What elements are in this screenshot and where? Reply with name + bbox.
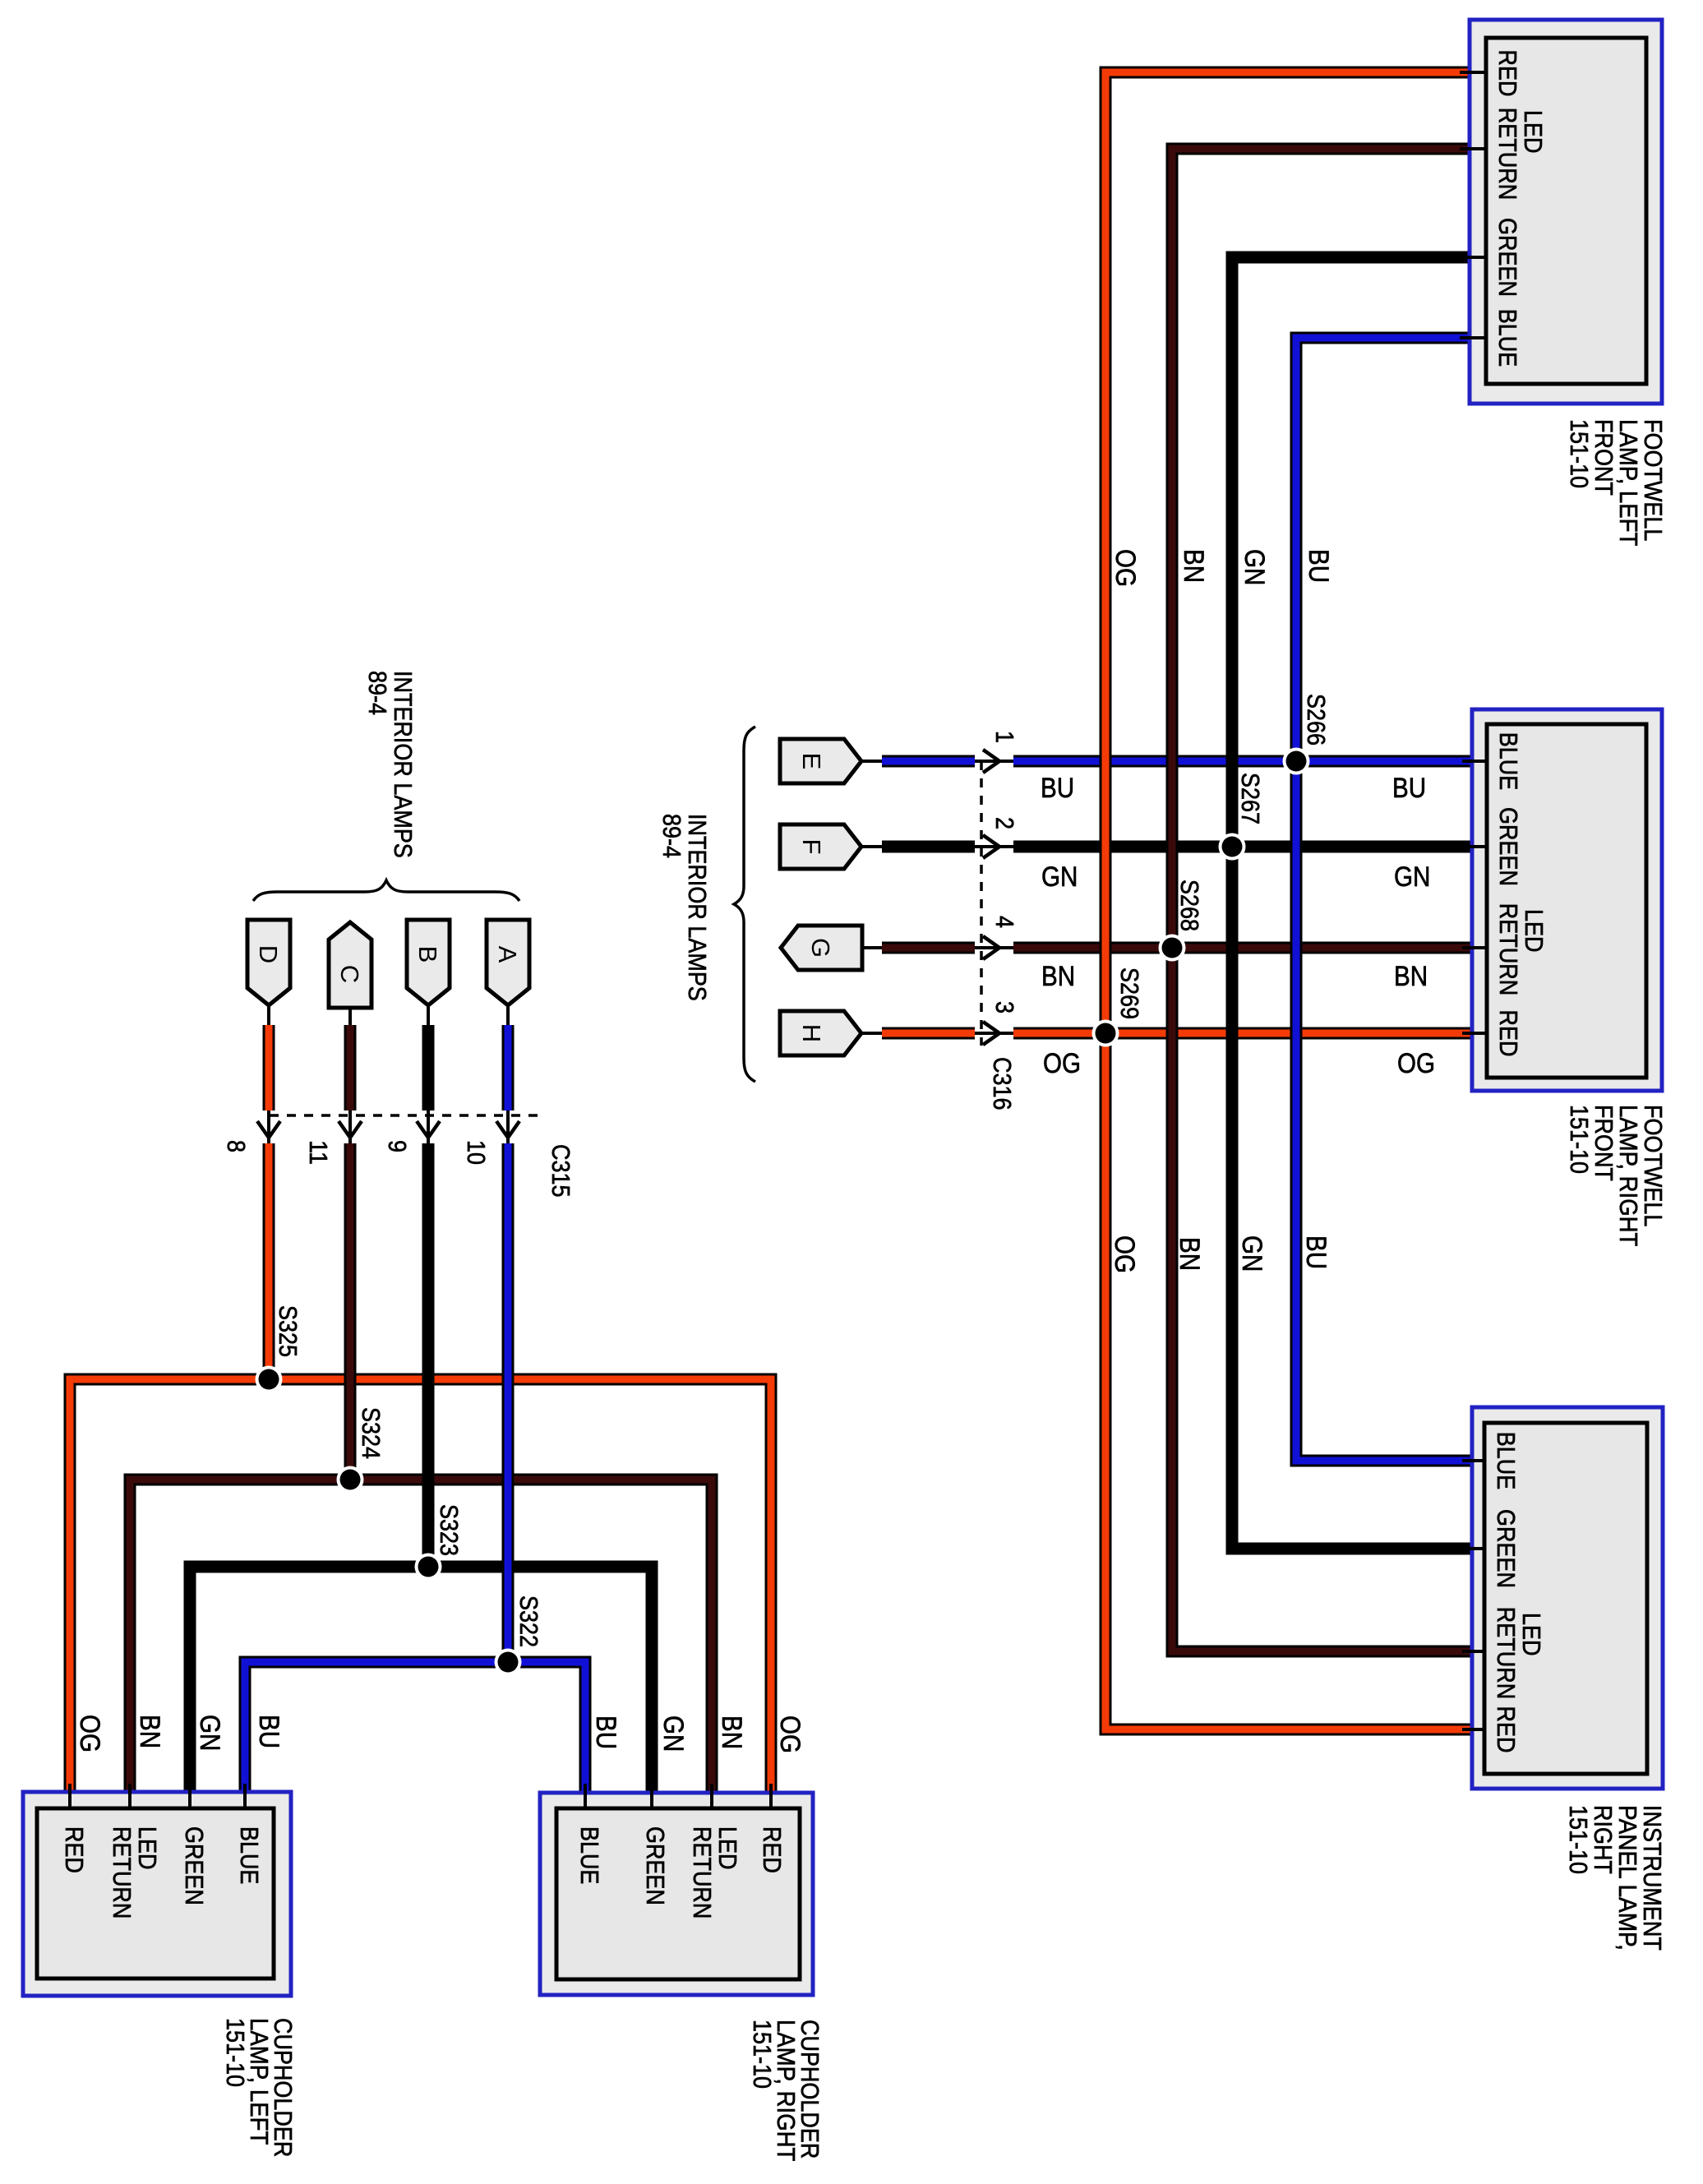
wire BN from footwell lamp left front LED RETURN pin down through splice S268 to instrument panel lamp right LED RETURN pin xyxy=(1172,149,1471,1651)
svg-text:GN: GN xyxy=(1239,549,1270,585)
svg-text:1: 1 xyxy=(990,731,1019,743)
off-page connector flag A (interior lamps feed) xyxy=(487,920,529,1005)
connector box CUPHOLDER LAMP LEFT 151-10 xyxy=(23,1792,291,1996)
pin stub GREEN footwell left front xyxy=(1460,256,1488,259)
pin stub GREEN cupholder right xyxy=(650,1784,653,1810)
svg-text:H: H xyxy=(797,1024,826,1042)
svg-text:GREEN: GREEN xyxy=(1492,1509,1521,1588)
svg-text:S269: S269 xyxy=(1115,967,1144,1019)
svg-text:4: 4 xyxy=(990,916,1019,928)
svg-text:BN: BN xyxy=(1174,1237,1205,1271)
wire thin segment through C316 pin 4 xyxy=(975,946,1013,949)
svg-text:BU: BU xyxy=(1300,1235,1331,1269)
svg-text:S267: S267 xyxy=(1236,773,1265,824)
wire thin segment through C316 pin 2 xyxy=(975,845,1013,848)
svg-text:GREEN: GREEN xyxy=(180,1826,209,1905)
wire OG run from cupholder lamp left RED pin up across splice S325 down to cupholder lamp right RED pin xyxy=(70,1379,771,1794)
pin stub BLUE instrument panel lamp xyxy=(1462,1459,1486,1462)
svg-text:RED: RED xyxy=(1493,50,1522,97)
svg-text:GREEN: GREEN xyxy=(641,1826,670,1905)
svg-text:RED: RED xyxy=(1492,1706,1521,1753)
svg-text:S268: S268 xyxy=(1175,880,1204,931)
svg-text:OG: OG xyxy=(74,1715,105,1752)
pin stub RED footwell left front xyxy=(1460,71,1488,74)
splice S323 xyxy=(415,1554,442,1581)
svg-text:F: F xyxy=(797,839,826,855)
svg-text:10: 10 xyxy=(462,1140,491,1165)
C316 arrowhead pin 3 xyxy=(983,1022,999,1045)
svg-text:2: 2 xyxy=(990,817,1019,829)
svg-text:OG: OG xyxy=(1397,1048,1435,1079)
svg-text:151-10: 151-10 xyxy=(1564,1805,1593,1874)
brace for flags D C B A xyxy=(253,880,519,901)
wire OG from flag H to connector C316 xyxy=(882,1027,975,1040)
svg-text:BU: BU xyxy=(590,1715,621,1749)
svg-text:RED: RED xyxy=(758,1826,787,1873)
connector box FOOTWELL LAMP LEFT FRONT 151-10 xyxy=(1470,20,1662,404)
pin stub BLUE cupholder left xyxy=(243,1784,247,1810)
pin stub LED RETURN cupholder right xyxy=(710,1784,713,1810)
wire BN from flag C to connector C315 pin 11 xyxy=(344,1025,357,1110)
svg-text:GN: GN xyxy=(658,1715,689,1752)
svg-text:E: E xyxy=(797,753,826,770)
off-page connector flag F (interior lamps feed) xyxy=(780,824,861,869)
splice S269 xyxy=(1092,1020,1119,1047)
svg-text:INTERIOR LAMPS: INTERIOR LAMPS xyxy=(389,671,418,858)
C315 arrowhead pin 8 xyxy=(257,1121,280,1138)
splice S266 xyxy=(1283,748,1310,775)
pin stub GREEN footwell right front xyxy=(1462,845,1488,848)
svg-text:G: G xyxy=(806,938,835,958)
svg-text:151-10: 151-10 xyxy=(1565,419,1594,488)
svg-text:8: 8 xyxy=(222,1140,251,1152)
svg-text:3: 3 xyxy=(990,1001,1019,1014)
wire thin segment through C316 pin 3 xyxy=(975,1032,1013,1035)
splice S267 xyxy=(1219,833,1246,861)
pin stub RED instrument panel lamp xyxy=(1462,1728,1486,1731)
off-page connector flag B (interior lamps feed) xyxy=(407,920,450,1005)
wire BU from flag E to connector C316 xyxy=(882,755,975,768)
svg-text:C: C xyxy=(335,965,364,983)
svg-text:151-10: 151-10 xyxy=(221,2018,250,2087)
wire BN from C316 pin 4 to footwell lamp right front LED RETURN pin, through splice S268 xyxy=(1013,942,1471,954)
wire lead flag C to BN wire xyxy=(348,1008,352,1025)
splice S325 xyxy=(256,1366,283,1393)
wire thin segment through C315 pin 8 xyxy=(267,1110,270,1143)
C315 arrowhead pin 11 xyxy=(339,1121,362,1138)
pin stub LED RETURN footwell left front xyxy=(1460,147,1488,150)
wire thin segment through C315 pin 9 xyxy=(427,1110,430,1143)
pin stub GREEN cupholder left xyxy=(188,1784,192,1810)
wire BN run from cupholder lamp left LED RETURN pin across splice S324 to cupholder lamp right LED RETURN pin xyxy=(130,1480,712,1794)
pin stub RED cupholder right xyxy=(769,1784,773,1810)
wire OG from C316 pin 3 to footwell lamp right front RED pin, through splice S269 xyxy=(1013,1027,1471,1040)
svg-text:D: D xyxy=(254,945,283,963)
svg-text:LED: LED xyxy=(1519,110,1548,154)
svg-text:S325: S325 xyxy=(274,1305,302,1357)
wire GN from C315 pin 9 down to splice S323 xyxy=(422,1143,435,1567)
svg-text:BN: BN xyxy=(716,1715,747,1749)
wire GN from flag B to connector C315 pin 9 xyxy=(422,1025,435,1110)
svg-text:RED: RED xyxy=(60,1826,89,1873)
svg-text:89-4: 89-4 xyxy=(658,814,686,858)
pin stub GREEN instrument panel lamp xyxy=(1462,1547,1486,1550)
wire GN from flag F to connector C316 xyxy=(882,841,975,853)
svg-text:RETURN: RETURN xyxy=(1494,903,1523,995)
svg-text:BN: BN xyxy=(134,1715,165,1748)
pin stub LED RETURN cupholder left xyxy=(128,1784,132,1810)
svg-text:BN: BN xyxy=(1041,961,1075,992)
wire BU from C315 pin 10 down to splice S322 xyxy=(502,1143,515,1662)
svg-text:151-10: 151-10 xyxy=(748,2020,777,2089)
pin stub BLUE footwell left front xyxy=(1460,336,1488,339)
connector box INSTRUMENT PANEL LAMP RIGHT 151-10 xyxy=(1472,1407,1663,1789)
off-page connector flag D (interior lamps feed) xyxy=(247,920,290,1005)
splice S268 xyxy=(1159,935,1186,962)
svg-text:BLUE: BLUE xyxy=(1494,732,1523,790)
wire BU run from cupholder lamp left BLUE pin across splice S322 to cupholder lamp right BLUE pin xyxy=(245,1662,585,1794)
C316 arrowhead pin 2 xyxy=(983,835,999,858)
svg-text:C316: C316 xyxy=(988,1057,1017,1110)
pin stub BLUE cupholder right xyxy=(584,1784,587,1810)
svg-text:RETURN: RETURN xyxy=(1492,1607,1521,1699)
wire lead flag B to GN wire xyxy=(427,1005,430,1025)
svg-text:B: B xyxy=(413,946,442,963)
svg-text:LED: LED xyxy=(713,1826,742,1870)
svg-text:LED: LED xyxy=(1520,909,1548,953)
svg-text:BLUE: BLUE xyxy=(1492,1432,1521,1489)
wire lead flag G to BN wire xyxy=(861,946,882,949)
off-page connector flag G (interior lamps feed) xyxy=(781,926,862,970)
connector box CUPHOLDER LAMP RIGHT 151-10 xyxy=(540,1793,813,1995)
connector C315 dashed line xyxy=(270,1114,541,1117)
svg-text:BLUE: BLUE xyxy=(575,1826,604,1884)
wire BU from C316 pin 1 to footwell lamp right front BLUE pin, through splice S266 xyxy=(1013,755,1471,768)
C316 arrowhead pin 1 xyxy=(983,750,999,773)
svg-text:OG: OG xyxy=(1043,1048,1081,1079)
svg-text:A: A xyxy=(493,946,522,963)
svg-text:S266: S266 xyxy=(1302,694,1331,746)
wire thin segment through C315 pin 11 xyxy=(348,1110,352,1143)
wire BU from footwell lamp left front BLUE pin down through splice S266 to instrument panel lamp right BLUE pin xyxy=(1296,338,1471,1461)
svg-text:RETURN: RETURN xyxy=(1493,108,1522,200)
connector box FOOTWELL LAMP RIGHT FRONT 151-10 xyxy=(1472,709,1662,1091)
svg-text:11: 11 xyxy=(304,1140,333,1165)
svg-text:OG: OG xyxy=(774,1715,805,1753)
C315 arrowhead pin 10 xyxy=(496,1121,519,1138)
svg-text:GN: GN xyxy=(1236,1235,1267,1272)
pin stub BLUE footwell right front xyxy=(1462,760,1488,763)
connector C316 dashed line xyxy=(980,761,983,1046)
svg-text:GN: GN xyxy=(1041,861,1078,893)
svg-text:BU: BU xyxy=(1041,773,1074,804)
svg-text:89-4: 89-4 xyxy=(363,671,392,715)
wire lead flag D to OG wire xyxy=(267,1005,270,1025)
brace for flags E F G H xyxy=(734,727,755,1082)
wire thin segment through C315 pin 10 xyxy=(506,1110,510,1143)
off-page connector flag E (interior lamps feed) xyxy=(780,739,861,783)
svg-text:BLUE: BLUE xyxy=(235,1826,264,1884)
wire BU from flag A to connector C315 pin 10 xyxy=(502,1025,515,1110)
wire BN from C315 pin 11 down to splice S324 xyxy=(344,1143,357,1480)
svg-text:OG: OG xyxy=(1110,549,1141,587)
wire lead flag E to BU wire xyxy=(861,760,882,763)
svg-text:INTERIOR LAMPS: INTERIOR LAMPS xyxy=(683,814,712,1001)
svg-text:GN: GN xyxy=(1394,861,1430,893)
wire thin segment through C316 pin 1 xyxy=(975,760,1013,763)
svg-text:RETURN: RETURN xyxy=(688,1826,717,1919)
svg-text:151-10: 151-10 xyxy=(1565,1105,1594,1174)
C315 arrowhead pin 9 xyxy=(417,1121,440,1138)
wire GN run from cupholder lamp left GREEN pin across splice S323 to cupholder lamp right GREEN pin xyxy=(190,1567,652,1794)
splice S322 xyxy=(495,1649,522,1676)
C316 arrowhead pin 4 xyxy=(983,936,999,959)
off-page connector flag H (interior lamps feed) xyxy=(780,1011,861,1055)
wire GN from footwell lamp left front GREEN pin down through splice S267 to instrument panel lamp right GREEN pin xyxy=(1232,257,1471,1549)
wire OG from footwell lamp left front RED pin down through splices S269 to instrument panel lamp right RED pin xyxy=(1105,72,1471,1729)
svg-text:BU: BU xyxy=(253,1715,284,1748)
pin stub LED RETURN footwell right front xyxy=(1462,946,1488,949)
svg-text:S322: S322 xyxy=(515,1595,543,1647)
wire lead flag H to OG wire xyxy=(861,1032,882,1035)
pin stub RED footwell right front xyxy=(1462,1032,1488,1035)
svg-text:GN: GN xyxy=(194,1715,225,1751)
svg-text:S323: S323 xyxy=(435,1504,464,1556)
svg-text:LED: LED xyxy=(133,1826,162,1870)
wire BN from flag G to connector C316 xyxy=(882,942,975,954)
svg-text:BLUE: BLUE xyxy=(1493,309,1522,367)
pin stub LED RETURN instrument panel lamp xyxy=(1462,1650,1486,1653)
wire OG from C315 pin 8 down to splice S325 xyxy=(263,1143,275,1379)
svg-text:GREEN: GREEN xyxy=(1493,218,1522,297)
svg-text:C315: C315 xyxy=(547,1144,575,1198)
svg-text:9: 9 xyxy=(383,1140,412,1152)
svg-text:GREEN: GREEN xyxy=(1494,807,1523,886)
pin stub RED cupholder left xyxy=(68,1784,72,1810)
svg-text:RETURN: RETURN xyxy=(108,1826,136,1919)
svg-text:BN: BN xyxy=(1394,961,1428,992)
wire lead flag A to BU wire xyxy=(506,1005,510,1025)
svg-text:RED: RED xyxy=(1494,1010,1523,1057)
svg-text:OG: OG xyxy=(1109,1235,1140,1273)
svg-text:BN: BN xyxy=(1178,549,1209,583)
off-page connector flag C (interior lamps feed) xyxy=(329,922,372,1008)
svg-text:BU: BU xyxy=(1303,549,1334,583)
svg-text:LED: LED xyxy=(1517,1613,1546,1656)
splice S324 xyxy=(337,1466,364,1494)
svg-text:BU: BU xyxy=(1392,773,1426,804)
wire GN from C316 pin 2 to footwell lamp right front GREEN pin, through splice S267 xyxy=(1013,841,1471,853)
wire lead flag F to GN wire xyxy=(861,845,882,848)
wire OG from flag D to connector C315 pin 8 xyxy=(263,1025,275,1110)
svg-text:S324: S324 xyxy=(357,1407,385,1459)
